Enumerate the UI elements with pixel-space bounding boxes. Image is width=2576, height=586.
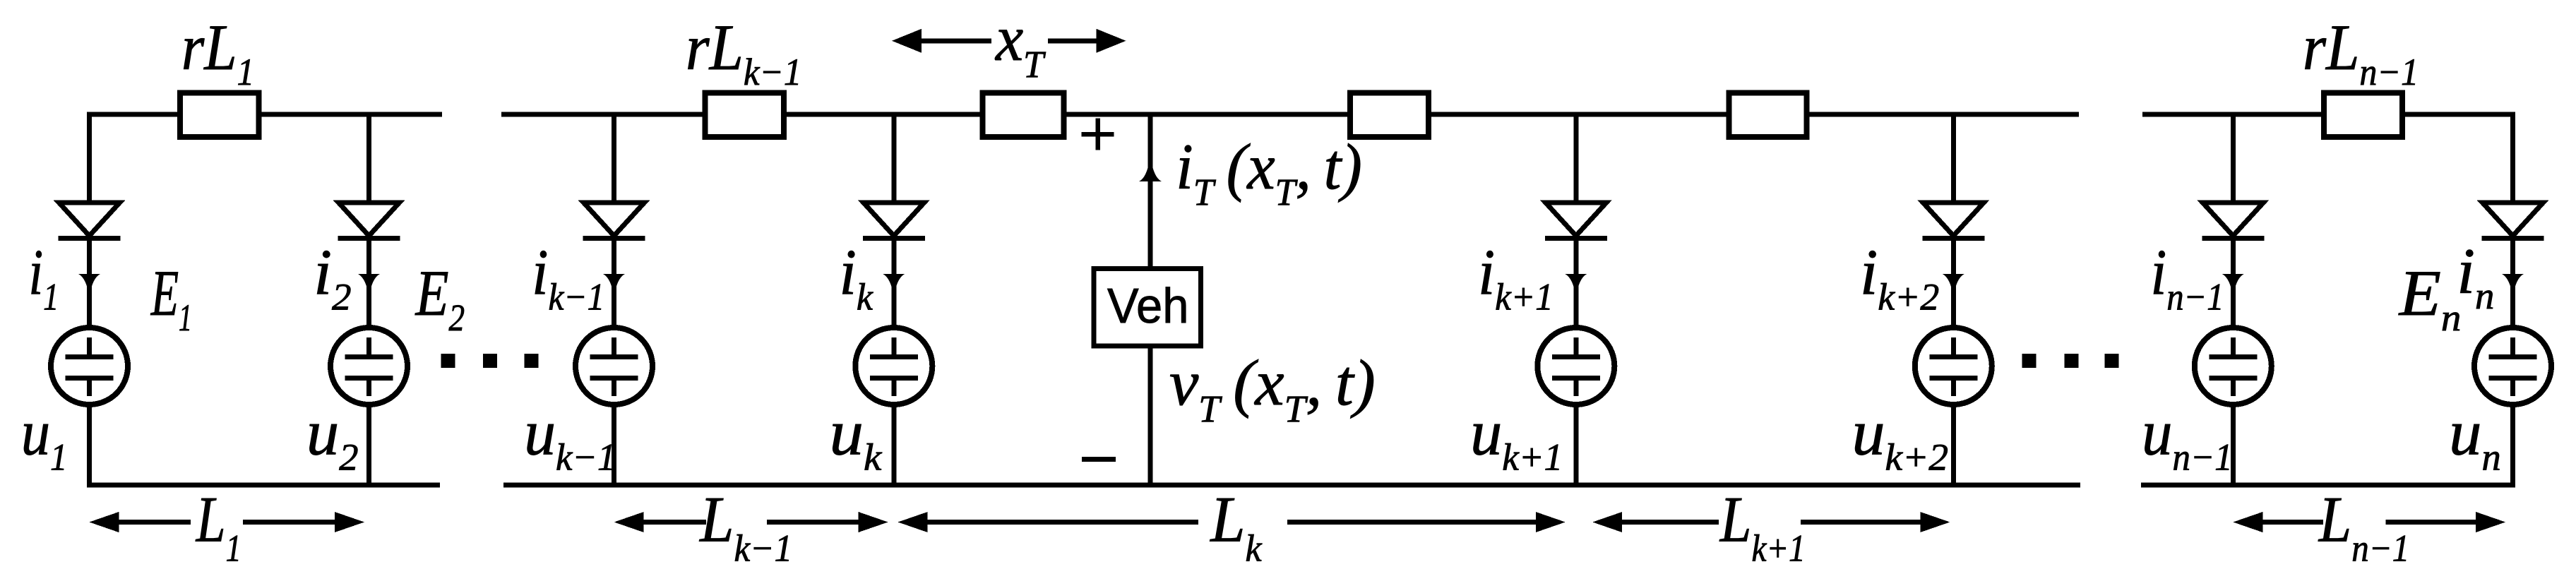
diode branch n-1 bbox=[2202, 203, 2263, 236]
resistor section k right bbox=[1350, 93, 1429, 137]
current arrow ik+1 bbox=[1565, 274, 1587, 297]
svg-text:un−1: un−1 bbox=[2142, 397, 2233, 479]
diode branch 2 bbox=[339, 203, 400, 236]
substation source branch n bbox=[2474, 328, 2551, 405]
wire branch k-1 diode to source bbox=[612, 236, 616, 329]
svg-text:L1: L1 bbox=[196, 484, 241, 570]
svg-text:ik: ik bbox=[839, 237, 873, 318]
label Lk-1 bbox=[698, 484, 792, 570]
ellipsis dots right bbox=[2022, 354, 2037, 368]
dimension arrow Ln-1 bbox=[2233, 512, 2262, 532]
label u2 bbox=[306, 397, 359, 479]
substation source branch k-1 bbox=[576, 328, 652, 405]
label rLn-1 bbox=[2303, 12, 2419, 93]
label un bbox=[2449, 397, 2501, 479]
current arrow i1 bbox=[78, 274, 100, 297]
label uk+1 bbox=[1470, 397, 1563, 479]
svg-text:u2: u2 bbox=[306, 397, 359, 479]
wire branch 2 bottom segment bbox=[366, 405, 371, 485]
svg-text:uk: uk bbox=[830, 397, 883, 479]
polarity plus sign bbox=[1082, 132, 1114, 137]
svg-text:rLn−1: rLn−1 bbox=[2303, 12, 2419, 93]
wire top rail segment A (contact line) bbox=[87, 112, 442, 117]
svg-text:uk+1: uk+1 bbox=[1470, 397, 1563, 479]
substation source branch k+2 bbox=[1915, 328, 1992, 405]
wire branch n top segment bbox=[2510, 114, 2515, 205]
wire branch n diode to source bbox=[2510, 236, 2515, 329]
wire top rail segment C bbox=[2142, 112, 2515, 117]
current arrow in-1 bbox=[2222, 274, 2244, 297]
svg-text:in: in bbox=[2457, 236, 2494, 316]
label Ln-1 bbox=[2318, 484, 2409, 570]
ellipsis dots left bbox=[441, 354, 455, 368]
current arrow in bbox=[2502, 274, 2524, 297]
substation source branch k+1 bbox=[1537, 328, 1614, 405]
wire branch n-1 bottom segment bbox=[2231, 405, 2236, 485]
wire branch 1 top segment bbox=[87, 114, 92, 205]
substation source branch k bbox=[855, 328, 932, 405]
wire branch 1 diode to source bbox=[87, 236, 92, 329]
label ik+1 bbox=[1478, 237, 1554, 318]
label i2 bbox=[314, 237, 352, 318]
current arrow iT (upward) bbox=[1139, 155, 1162, 181]
wire branch k+1 bottom segment bbox=[1573, 405, 1578, 485]
svg-text:rLk−1: rLk−1 bbox=[686, 12, 801, 94]
label uk bbox=[830, 397, 883, 479]
svg-text:Lk−1: Lk−1 bbox=[698, 484, 792, 570]
current arrow i2 bbox=[358, 274, 380, 297]
wire branch k+1 top segment bbox=[1573, 114, 1578, 205]
wire branch 2 top segment bbox=[366, 114, 371, 205]
resistor rLk-1 bbox=[705, 93, 784, 137]
wire branch k+2 top segment bbox=[1951, 114, 1956, 205]
svg-text:Lk+1: Lk+1 bbox=[1719, 483, 1806, 569]
label in-1 bbox=[2150, 236, 2224, 318]
polarity minus sign bbox=[1082, 457, 1116, 462]
wire bottom rail segment B bbox=[503, 483, 2080, 488]
vehicle box Veh bbox=[1094, 269, 1200, 346]
svg-text:uk+2: uk+2 bbox=[1851, 397, 1948, 478]
dimension arrow Lk+1 bbox=[1592, 512, 1622, 532]
wire branch k bottom segment bbox=[891, 405, 896, 485]
substation source branch 2 bbox=[330, 328, 407, 405]
wire branch n-1 top segment bbox=[2231, 114, 2236, 205]
wire branch k-1 top segment bbox=[612, 114, 616, 205]
diode branch n bbox=[2483, 203, 2544, 236]
diode branch k+1 bbox=[1546, 203, 1606, 236]
svg-text:ik+2: ik+2 bbox=[1860, 236, 1939, 318]
wire vehicle branch top segment bbox=[1148, 114, 1153, 266]
svg-text:u1: u1 bbox=[21, 396, 67, 479]
svg-text:En: En bbox=[2398, 258, 2462, 339]
svg-text:E1: E1 bbox=[150, 258, 192, 340]
resistor rLn-1 bbox=[2324, 93, 2402, 137]
dimension arrow Lk-1 bbox=[614, 512, 644, 532]
wire bottom rail segment A (running rail) bbox=[87, 483, 440, 488]
diode branch k-1 bbox=[584, 203, 645, 236]
svg-text:un: un bbox=[2449, 397, 2501, 479]
svg-text:ik+1: ik+1 bbox=[1478, 237, 1554, 318]
label rLk-1 bbox=[686, 12, 801, 94]
resistor section k+1 bbox=[1729, 93, 1806, 137]
label En bbox=[2398, 258, 2462, 339]
diode branch k bbox=[864, 203, 924, 236]
label E1 bbox=[150, 258, 192, 340]
substation source branch n-1 bbox=[2195, 328, 2272, 405]
svg-text:Veh: Veh bbox=[1107, 278, 1188, 334]
label uk-1 bbox=[524, 396, 616, 478]
wire branch k diode to source bbox=[891, 236, 896, 329]
label E2 bbox=[415, 258, 465, 339]
wire branch 1 bottom segment bbox=[87, 405, 92, 485]
label ik+2 bbox=[1860, 236, 1939, 318]
wire branch n bottom segment bbox=[2510, 405, 2515, 485]
label ik-1 bbox=[532, 237, 604, 318]
label Lk bbox=[1209, 484, 1263, 570]
label u1 bbox=[21, 396, 67, 479]
substation source branch 1 bbox=[51, 328, 128, 405]
diode branch 1 bbox=[59, 203, 120, 236]
current arrow ik-1 bbox=[603, 274, 625, 297]
wire branch n-1 diode to source bbox=[2231, 236, 2236, 329]
label Veh bbox=[1107, 278, 1188, 334]
svg-text:E2: E2 bbox=[415, 258, 465, 339]
current arrow ik+2 bbox=[1943, 274, 1964, 297]
dimension arrow xT span bbox=[892, 29, 922, 53]
wire vehicle branch bottom segment bbox=[1148, 348, 1153, 485]
svg-text:Ln−1: Ln−1 bbox=[2318, 484, 2409, 570]
svg-text:rL1: rL1 bbox=[181, 11, 254, 93]
wire top rail segment B bbox=[501, 112, 2079, 117]
svg-text:uk−1: uk−1 bbox=[524, 396, 616, 478]
diode branch k+2 bbox=[1923, 203, 1984, 236]
dimension arrow L1 bbox=[89, 512, 119, 532]
wire branch k top segment bbox=[891, 114, 896, 205]
label in bbox=[2457, 236, 2494, 316]
svg-text:iT (xT, t): iT (xT, t) bbox=[1176, 131, 1362, 214]
resistor rL1 bbox=[180, 93, 259, 137]
svg-text:vT (xT, t): vT (xT, t) bbox=[1169, 347, 1376, 429]
svg-text:in−1: in−1 bbox=[2150, 236, 2224, 318]
label Lk+1 bbox=[1719, 483, 1806, 569]
label iT bbox=[1176, 131, 1362, 214]
svg-text:Lk: Lk bbox=[1209, 484, 1263, 570]
wire branch k+2 diode to source bbox=[1951, 236, 1956, 329]
svg-text:ik−1: ik−1 bbox=[532, 237, 604, 318]
wire branch k-1 bottom segment bbox=[612, 405, 616, 485]
svg-text:i2: i2 bbox=[314, 237, 352, 318]
current arrow ik bbox=[883, 274, 905, 297]
label vT bbox=[1169, 347, 1376, 429]
resistor r-xT section k left bbox=[983, 93, 1064, 137]
label rL1 bbox=[181, 11, 254, 93]
label i1 bbox=[28, 237, 59, 318]
label ik bbox=[839, 237, 873, 318]
wire branch k+2 bottom segment bbox=[1951, 405, 1956, 485]
label uk+2 bbox=[1851, 397, 1948, 478]
wire branch 2 diode to source bbox=[366, 236, 371, 329]
wire bottom rail segment C bbox=[2141, 483, 2515, 488]
label un-1 bbox=[2142, 397, 2233, 479]
label L1 bbox=[196, 484, 241, 570]
wire branch k+1 diode to source bbox=[1573, 236, 1578, 329]
svg-text:xT: xT bbox=[994, 2, 1046, 85]
svg-text:i1: i1 bbox=[28, 237, 59, 318]
dimension arrow Lk bbox=[898, 512, 928, 532]
label xT bbox=[994, 2, 1046, 85]
